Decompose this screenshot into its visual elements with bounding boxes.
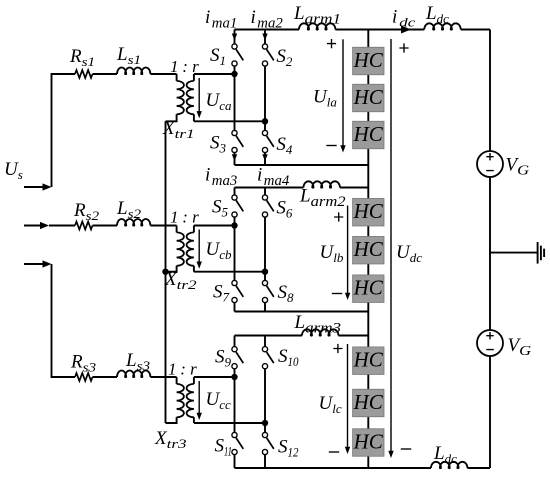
U_lb plus sign [334, 212, 343, 221]
wire secondary b bottom to S6/S8 node [194, 271, 265, 273]
svg-text:Ula: Ula [313, 87, 337, 110]
X_tr2 secondary coil [187, 232, 194, 265]
resistor R_s2 zigzag [75, 222, 92, 230]
X_tr2 primary coil [177, 232, 184, 265]
X_tr3 secondary bottom stub [193, 417, 195, 423]
HC cell HC5 [353, 236, 384, 264]
svg-text:S11: S11 [215, 436, 233, 459]
svg-text:S4: S4 [276, 134, 293, 157]
X_tr1 primary bottom stub [166, 114, 177, 121]
bottom dc rail right segment [467, 467, 490, 469]
U_cb voltage arrow [197, 230, 202, 269]
svg-text:Xtr3: Xtr3 [154, 428, 187, 451]
i_ma3 current arrow [232, 154, 237, 161]
wire arm c rail to S9 [234, 336, 236, 347]
svg-text:Rs2: Rs2 [73, 200, 100, 223]
svg-text:Xtr1: Xtr1 [162, 118, 195, 141]
inductor L_s1 coil [117, 67, 150, 74]
X_tr1 primary top stub [176, 74, 178, 81]
bottom dc rail left segment [235, 467, 432, 469]
svg-text:Us: Us [4, 159, 23, 182]
wire R_s2 to L_s2 [93, 225, 118, 227]
svg-text:Ls1: Ls1 [116, 44, 141, 67]
source lead a [24, 186, 44, 188]
wire rail to S2 [264, 30, 266, 45]
svg-text:S5: S5 [212, 197, 229, 220]
switch S4 [262, 130, 273, 152]
svg-text:Ulc: Ulc [319, 393, 342, 416]
svg-text:VG: VG [508, 335, 532, 359]
node: secondary a top / S1-S3 midpoint [231, 71, 237, 77]
X_tr1 secondary bottom stub [193, 114, 195, 121]
U_lc voltage arrow [345, 344, 350, 454]
switch S9 [232, 347, 243, 369]
svg-text:S7: S7 [213, 282, 230, 305]
wire S10 to S12 [264, 369, 266, 433]
X_tr1 secondary top stub [193, 74, 195, 81]
U_la minus sign [326, 145, 336, 147]
wire rail to S1 [234, 30, 236, 45]
X_tr3 secondary coil [187, 384, 194, 417]
svg-text:Ls3: Ls3 [125, 350, 151, 373]
wire S12 to bottom rail [264, 454, 266, 468]
svg-text:Rs1: Rs1 [69, 46, 95, 69]
inductor L_arm2 coil [304, 181, 340, 187]
svg-text:HC: HC [353, 199, 384, 223]
U_cc voltage arrow [197, 381, 202, 420]
svg-text:HC: HC [353, 85, 384, 109]
node: secondary c bottom / S10-S12 midpoint [262, 420, 268, 426]
wire L_s3 to transformer 3 [150, 376, 176, 378]
source lead c [24, 263, 44, 265]
X_tr3 primary top stub [176, 377, 178, 384]
switch S11 [232, 432, 243, 454]
node: secondary a bottom / S2-S4 midpoint [262, 118, 268, 124]
wire bus to ground [490, 252, 537, 254]
arm b bottom rail [235, 311, 369, 313]
wire S8 to arm b bottom rail [264, 302, 266, 311]
wire S7 to arm b bottom rail [234, 302, 236, 311]
switch S6 [262, 195, 273, 217]
U_la voltage arrow [340, 39, 345, 152]
svg-text:Ucb: Ucb [206, 239, 233, 262]
U_dc voltage arrow [388, 39, 393, 458]
svg-text:S12: S12 [278, 437, 299, 460]
svg-text:: r: : r [178, 208, 199, 227]
wire R_s3 to L_s3 [93, 376, 118, 378]
HC cell HC6 [353, 275, 384, 303]
svg-text:S2: S2 [276, 46, 293, 69]
ground symbol [538, 242, 545, 264]
svg-text:Ulb: Ulb [320, 242, 344, 265]
svg-text:S3: S3 [210, 133, 227, 156]
svg-text:S9: S9 [215, 347, 232, 370]
arrow into phase a [43, 183, 52, 190]
svg-text:Larm3: Larm3 [294, 312, 342, 337]
inductor L_arm3 coil [302, 329, 338, 335]
wire to R_s2 [49, 225, 75, 227]
i_dc current arrow [401, 26, 411, 34]
wire secondary c bottom to S10/S12 node [194, 422, 265, 424]
svg-text:Ucc: Ucc [206, 389, 232, 412]
right bus upper wire [489, 30, 491, 152]
U_lb minus sign [332, 293, 342, 295]
svg-text:ima1: ima1 [205, 7, 237, 32]
svg-text:S10: S10 [278, 346, 299, 369]
HC submodule chain wire [367, 30, 369, 469]
i_ma2 current arrow [262, 34, 267, 41]
switch S1 [232, 44, 243, 66]
X_tr3 secondary top stub [193, 377, 195, 384]
node: secondary b top / S5-S7 midpoint [231, 222, 237, 228]
voltage source V_G upper [477, 151, 503, 177]
HC cell HC9 [353, 429, 384, 457]
switch S2 [262, 44, 273, 66]
svg-text:S8: S8 [278, 282, 295, 305]
svg-text:Rs3: Rs3 [70, 352, 97, 375]
arm b top rail right segment [340, 187, 368, 189]
inductor L_dc top coil [424, 23, 460, 29]
svg-text:HC: HC [353, 122, 384, 146]
X_tr1 primary coil [177, 81, 184, 114]
wire S11 to bottom rail [234, 454, 236, 468]
HC cell HC7 [353, 347, 384, 375]
X_tr2 primary bottom stub [166, 266, 177, 272]
wire S1 to S3 [234, 66, 236, 131]
switch S10 [262, 347, 273, 369]
svg-text:Xtr2: Xtr2 [164, 269, 197, 292]
resistor R_s3 zigzag [75, 373, 92, 381]
inductor L_s3 coil [117, 371, 150, 378]
switch S3 [232, 130, 243, 152]
wire S6 to S8 [264, 217, 266, 281]
wire S4 to arm a rail [264, 152, 266, 165]
X_tr2 secondary bottom stub [193, 266, 195, 272]
svg-text:ima3: ima3 [205, 165, 237, 190]
svg-text:HC: HC [353, 48, 384, 72]
U_ca voltage arrow [197, 78, 202, 118]
X_tr3 primary bottom stub [166, 417, 177, 423]
right bus middle wire [489, 177, 491, 330]
inductor L_s2 coil [117, 219, 150, 226]
wire L_s2 to transformer 2 [150, 225, 176, 227]
arm a bottom rail [235, 164, 369, 166]
svg-text:HC: HC [353, 348, 384, 372]
wire source to R_s3 [52, 264, 76, 377]
wire arm c rail to S10 [264, 336, 266, 347]
U_dc minus sign [401, 448, 411, 450]
svg-text:Ls2: Ls2 [116, 198, 142, 221]
svg-text:ima4: ima4 [257, 165, 290, 190]
wire source to R_s1 [52, 74, 76, 187]
svg-text:HC: HC [353, 430, 384, 454]
HC cell HC4 [353, 198, 384, 226]
inductor L_arm1 coil [299, 23, 335, 29]
U_lc minus sign [329, 451, 339, 453]
HC cell HC2 [353, 84, 384, 112]
source lead b [24, 225, 41, 227]
svg-text:ima2: ima2 [251, 7, 284, 32]
svg-text:idc: idc [392, 7, 416, 30]
wire secondary a bottom to S2/S4 node [194, 120, 265, 122]
top dc rail middle segment [335, 29, 424, 31]
wire arm b rail to S5 [234, 188, 236, 196]
i_ma1 current arrow [232, 34, 237, 41]
U_la plus sign [327, 39, 336, 48]
wire R_s1 to L_s1 [93, 73, 118, 75]
switch S5 [232, 195, 243, 217]
svg-text:S1: S1 [210, 45, 226, 68]
X_tr2 secondary top stub [193, 226, 195, 233]
voltage source V_G lower [477, 330, 503, 356]
arm c top rail left segment [235, 335, 303, 337]
X_tr3 primary coil [177, 384, 184, 417]
junction neutral / X_tr2 primary [162, 269, 168, 275]
svg-text:Ldc: Ldc [433, 443, 457, 466]
U_lb voltage arrow [345, 206, 350, 301]
svg-text:Uca: Uca [206, 90, 233, 113]
U_dc plus sign [399, 43, 408, 52]
wire S3 to arm a rail [234, 152, 236, 165]
switch S8 [262, 280, 273, 302]
resistor R_s1 zigzag [75, 70, 92, 78]
wire S9 to S11 [234, 369, 236, 433]
wire L_s1 to transformer 1 [150, 73, 176, 75]
wire secondary a top to S1/S3 node [194, 73, 235, 75]
i_ma4 current arrow [262, 154, 267, 161]
wire arm b rail to S6 [264, 188, 266, 196]
HC cell HC1 [353, 47, 384, 75]
arrow into phase c [43, 260, 52, 267]
svg-text:VG: VG [506, 155, 530, 179]
svg-text:S6: S6 [276, 198, 293, 221]
arm c top rail right segment [338, 335, 368, 337]
svg-text:HC: HC [353, 390, 384, 414]
X_tr2 primary top stub [176, 226, 178, 233]
arm b top rail left segment [235, 187, 304, 189]
U_lc plus sign [333, 344, 342, 353]
wire secondary b top to S5/S7 node [194, 225, 235, 227]
switch S7 [232, 280, 243, 302]
wire S5 to S7 [234, 217, 236, 281]
svg-text:: r: : r [176, 360, 197, 379]
node: secondary c top / S9-S11 midpoint [231, 374, 237, 380]
right bus lower wire [489, 356, 491, 468]
inductor L_dc bottom coil [431, 462, 467, 468]
X_tr1 secondary coil [187, 81, 194, 114]
switch S12 [262, 432, 273, 454]
svg-text:HC: HC [353, 276, 384, 300]
neutral wire joining transformer primaries [165, 121, 167, 423]
top dc rail left segment [235, 29, 300, 31]
arrow into phase b [40, 222, 49, 229]
top dc rail right segment [461, 29, 490, 31]
svg-text:HC: HC [353, 237, 384, 261]
HC cell HC3 [353, 121, 384, 149]
wire secondary c top to S9/S11 node [194, 376, 235, 378]
svg-text:Larm2: Larm2 [299, 186, 346, 211]
node: secondary b bottom / S6-S8 midpoint [262, 269, 268, 275]
HC cell HC8 [353, 389, 384, 417]
wire S2 to S4 [264, 66, 266, 131]
svg-text:Udc: Udc [396, 242, 422, 265]
